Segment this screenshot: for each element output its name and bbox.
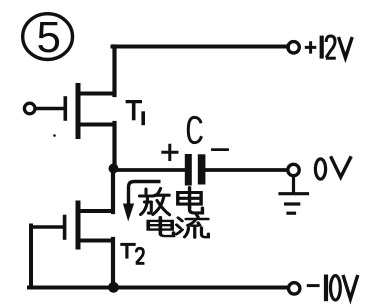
label +12V: [305, 36, 352, 59]
source lead: [79, 123, 115, 127]
gate bar: [63, 217, 67, 239]
label 0V: [315, 156, 351, 179]
drain lead: [79, 92, 115, 96]
figure number badge 5: [23, 13, 73, 62]
transistor T2: [65, 203, 113, 247]
channel bar: [76, 86, 81, 137]
plus polarity mark: [163, 145, 177, 159]
terminal -10V: [289, 283, 300, 294]
wire T1 drain up to +12V rail: [112, 47, 116, 96]
wire T2 gate: [31, 225, 63, 229]
wire input to T1 gate: [36, 107, 63, 111]
gate bar: [64, 98, 68, 119]
label T1: [126, 102, 144, 126]
label T2: [120, 244, 144, 263]
ground symbol: [280, 177, 308, 214]
label 电 (discharge char 2): [178, 188, 203, 213]
source lead: [79, 239, 113, 243]
terminal 0V: [288, 164, 299, 175]
terminal +12V: [288, 42, 299, 53]
wire capacitor to 0V terminal: [205, 168, 288, 172]
channel bar: [76, 203, 81, 247]
label 放 (discharge char 1): [140, 189, 170, 215]
drain lead: [79, 209, 113, 213]
wire node down to T2 drain: [111, 169, 115, 213]
label C: [188, 117, 201, 142]
wire node to capacitor: [114, 168, 186, 172]
label 流 (current char 2): [177, 215, 209, 238]
node junction dot: [109, 164, 119, 174]
label -10V: [307, 275, 358, 302]
input terminal (gate of T1): [24, 103, 35, 114]
wire +12V rail: [113, 45, 289, 49]
svg-text:5: 5: [37, 13, 61, 62]
wire T2 source down to -10V rail: [111, 239, 115, 288]
transistor T1: [65, 86, 114, 137]
minus polarity mark: [213, 148, 228, 151]
bottom junction dot: [108, 282, 119, 293]
wire T1 source down to node: [112, 123, 116, 169]
wire -10V rail: [29, 286, 288, 290]
capacitor C: [185, 154, 206, 186]
label 电 (current char 1): [148, 217, 173, 236]
wire gate return down: [29, 226, 33, 288]
discharge current arrow: [123, 182, 161, 222]
ink speck artifact: [53, 134, 56, 137]
